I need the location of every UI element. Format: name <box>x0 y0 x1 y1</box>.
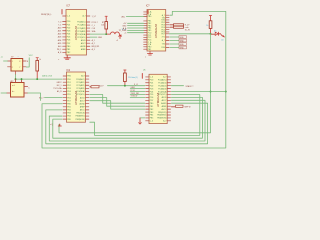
svg-text:AGND: AGND <box>79 102 85 105</box>
svg-text:PD2: PD2 <box>67 85 71 87</box>
IC3 left pin label MC_1 <box>57 85 62 87</box>
wire IC1 reset net <box>90 33 107 35</box>
svg-text:+5: +5 <box>116 40 118 42</box>
svg-text:+: + <box>18 56 19 58</box>
wire IC2 left AVC <box>126 16 143 18</box>
wire IC2 left +5V <box>128 22 144 24</box>
svg-text:v: v <box>58 59 59 61</box>
resistor R5 serial <box>90 86 99 88</box>
resistor R1 name <box>102 22 104 24</box>
svg-text:PD7: PD7 <box>67 43 71 45</box>
crystal Q2 square <box>7 79 28 97</box>
resistor R4 pullup <box>209 16 212 34</box>
wire flag TVKR_WR <box>130 94 145 96</box>
crystal Q1 square <box>8 59 27 75</box>
svg-text:GND: GND <box>98 37 103 39</box>
jumper JP1 arc <box>107 32 121 36</box>
svg-text:PB1: PB1 <box>67 49 70 51</box>
svg-text:BRQ2,R1: BRQ2,R1 <box>92 46 100 48</box>
resistor R4 value <box>206 25 208 27</box>
IC IC2 (ATMEGA8 right) <box>144 10 170 52</box>
svg-text:1N Gate(1): 1N Gate(1) <box>128 76 138 79</box>
wire staircase S1 <box>90 95 145 104</box>
svg-text:PB5(SCK): PB5(SCK) <box>76 113 85 115</box>
IC1 right pin label BRQ2,R1 <box>92 46 100 48</box>
svg-text:AL0: AL0 <box>58 45 61 48</box>
svg-text:PB0: PB0 <box>148 16 151 18</box>
svg-text:PC1(AD1): PC1(AD1) <box>158 81 167 84</box>
Q2 right label <box>28 87 30 89</box>
svg-text:A_7: A_7 <box>163 120 166 123</box>
svg-text:8: 8 <box>19 61 20 63</box>
svg-text:PB4(MISO): PB4(MISO) <box>157 115 167 117</box>
svg-text:PB3(MOSI): PB3(MOSI) <box>76 119 86 121</box>
wire Q2 right <box>28 93 41 101</box>
svg-text:PB2: PB2 <box>150 109 153 111</box>
svg-text:PB5: PB5 <box>67 119 70 121</box>
net label PC1O <box>131 90 136 92</box>
IC1 left pin label AD3 <box>58 36 62 39</box>
IC1 left pin label AD1 <box>58 30 62 33</box>
IC IC1 (ATMEGA8 top) <box>63 10 90 56</box>
resistor R3 serial <box>170 26 184 28</box>
svg-text:PB2: PB2 <box>67 110 70 112</box>
svg-text:DA CLOCK: DA CLOCK <box>42 75 53 78</box>
wire DA CLOCK <box>16 78 63 80</box>
wire RxD net to IC4 <box>108 85 145 87</box>
wire net V1 down and around bottom <box>59 34 211 133</box>
IC1 left pin label T_1 <box>58 24 61 26</box>
svg-text:1_5,7: 1_5,7 <box>92 16 97 18</box>
svg-text:PC5(SCL): PC5(SCL) <box>77 37 86 39</box>
svg-text:PC2(AD2): PC2(AD2) <box>77 27 86 30</box>
svg-text:PD4: PD4 <box>150 91 154 93</box>
IC4 designator <box>143 70 145 72</box>
svg-text:1k: 1k <box>39 59 41 61</box>
IC1 right pin label PC1/L7 <box>92 22 98 24</box>
svg-text:GML1: GML1 <box>131 87 136 89</box>
svg-text:STACK ?: STACK ? <box>186 85 194 88</box>
junction outer row92 <box>225 91 227 93</box>
svg-text:PB6: PB6 <box>67 76 70 78</box>
svg-text:PB5: PB5 <box>150 118 153 120</box>
resistor R8 value <box>39 59 41 61</box>
IC1 left pin label AD5 <box>58 42 62 45</box>
ground under IC3 <box>58 124 61 126</box>
svg-text:AGND: AGND <box>161 102 167 105</box>
svg-text:+5: +5 <box>1 57 3 59</box>
resistor R5 label RxD <box>99 86 104 88</box>
svg-text:ADC6: ADC6 <box>81 39 86 42</box>
svg-text:PD0: PD0 <box>67 79 71 81</box>
ground under IC2 <box>147 51 152 55</box>
svg-text:PB1: PB1 <box>150 106 153 108</box>
svg-text:AVCC: AVCC <box>162 108 168 111</box>
svg-text:ATMEGA8: ATMEGA8 <box>74 91 78 105</box>
LED D1 <box>211 32 225 37</box>
svg-text:PC2(AD2): PC2(AD2) <box>158 84 167 87</box>
svg-text:+5: +5 <box>124 33 126 35</box>
net label VCC <box>29 55 34 57</box>
label +5V <box>123 23 127 25</box>
svg-text:PB2: PB2 <box>67 52 70 54</box>
svg-text:A_3: A_3 <box>92 48 95 51</box>
supply +5 text <box>116 40 118 42</box>
svg-text:ADC6: ADC6 <box>80 96 85 99</box>
svg-text:PC3(AD3): PC3(AD3) <box>76 87 85 90</box>
junction node R4 <box>210 33 212 35</box>
svg-text:PB4: PB4 <box>67 116 70 118</box>
net label TVKR_WR <box>131 93 140 95</box>
svg-text:PD4: PD4 <box>67 34 71 36</box>
Q1 designator <box>18 56 19 58</box>
IC1 right pin label SDA <box>92 30 96 33</box>
IC1 right pin label A_1 <box>92 39 95 42</box>
net label DA CLOCK <box>42 75 53 78</box>
label A_A <box>123 27 127 30</box>
svg-text:G?: G? <box>11 56 13 58</box>
svg-text:B: B <box>27 61 28 63</box>
supply symbol under IC4 <box>139 118 142 124</box>
IC IC3 (ATMEGA8 bottom) <box>63 72 89 122</box>
resistor R7 label NRF <box>185 107 191 109</box>
svg-text:T_1: T_1 <box>58 24 61 26</box>
svg-text:PB3(MOSI): PB3(MOSI) <box>157 118 167 120</box>
svg-text:PC4(SDA): PC4(SDA) <box>77 33 86 36</box>
wire staircase S3 <box>90 101 145 109</box>
svg-text:10k: 10k <box>101 25 104 27</box>
svg-text:PC1(AD1): PC1(AD1) <box>76 81 85 84</box>
label +5 <box>124 33 126 35</box>
svg-text:PD0: PD0 <box>150 80 154 82</box>
LED D1 name <box>221 40 224 42</box>
svg-text:ATMEGA8: ATMEGA8 <box>74 26 78 40</box>
wire IC2 right flag 40.5 <box>170 40 179 42</box>
resistor R3 label cash <box>185 27 189 29</box>
wire IC2 left +5 <box>128 32 144 34</box>
svg-text:PD2: PD2 <box>150 85 154 87</box>
svg-text:PD6: PD6 <box>150 97 154 99</box>
svg-text:PD3: PD3 <box>150 88 154 90</box>
IC3 left pin label GND? <box>57 82 62 84</box>
wire STACK <box>171 85 183 87</box>
wire IC2 right flag 37.0 <box>170 36 179 38</box>
net label +5 <box>1 57 3 59</box>
svg-text:C_6: C_6 <box>150 121 153 123</box>
net flag GND 47.5 <box>179 46 186 49</box>
R6 value IN Gate <box>128 76 138 79</box>
IC1 left pin label PB_1 <box>57 49 61 51</box>
svg-text:NRF W: NRF W <box>185 107 191 109</box>
svg-text:TX0: TX0 <box>162 44 165 46</box>
svg-text:PB0: PB0 <box>150 103 153 105</box>
svg-text:PB1: PB1 <box>148 49 151 51</box>
svg-text:AGND: AGND <box>80 45 86 48</box>
svg-text:PC3(AD3): PC3(AD3) <box>158 87 167 90</box>
svg-text:A_7: A_7 <box>82 15 85 18</box>
svg-text:TVKR_WR: TVKR_WR <box>131 93 140 95</box>
net label S_L1 <box>134 84 138 86</box>
svg-text:PB5(SCK): PB5(SCK) <box>158 112 167 114</box>
svg-text:AD1: AD1 <box>58 30 62 33</box>
svg-text:VCC: VCC <box>29 55 34 57</box>
svg-text:PD1: PD1 <box>67 24 71 26</box>
svg-text:C_L: C_L <box>92 25 95 27</box>
IC3 left pin label TVCO-DA <box>53 87 62 90</box>
wire IC2 left GND <box>128 25 144 27</box>
junction Q2 top <box>21 78 23 80</box>
svg-text:PB_1: PB_1 <box>57 49 61 51</box>
Q1 pin 1 <box>12 61 13 63</box>
wire ring A left <box>90 95 200 136</box>
Q1 pin 8 <box>19 61 20 63</box>
IC3 bottom label <box>50 124 53 126</box>
jumper JP1 value <box>122 28 127 31</box>
svg-text:PC0(ADC): PC0(ADC) <box>77 21 86 24</box>
svg-text:PD6: PD6 <box>67 97 71 99</box>
wire net VCC loop top/right/bottom <box>42 11 226 148</box>
wire IC2 right flag 44.0 <box>170 43 179 45</box>
wire Q2 left <box>1 92 7 94</box>
svg-text:ADC7: ADC7 <box>80 99 85 102</box>
svg-text:C_6: C_6 <box>150 77 153 79</box>
svg-text:PB1: PB1 <box>67 107 70 109</box>
svg-text:RX0: RX0 <box>161 47 165 49</box>
junction R6 node <box>124 85 126 87</box>
svg-text:MC_1: MC_1 <box>57 85 62 87</box>
svg-text:PD1: PD1 <box>67 82 71 84</box>
svg-text:GND?: GND? <box>57 82 62 84</box>
IC3 left pin label A5_R <box>57 90 62 93</box>
svg-text:AVCC: AVCC <box>80 109 86 112</box>
ground label <box>58 59 59 61</box>
label GND IC1 <box>98 37 103 39</box>
svg-text:2: 2 <box>12 67 13 69</box>
supply +5V symbol <box>119 35 122 39</box>
junction node RESET <box>105 33 107 35</box>
svg-text:ADC7: ADC7 <box>81 42 86 45</box>
net flag GND 44.0 <box>179 43 186 46</box>
Q2 pin mark b <box>12 91 14 93</box>
ground under IC1 <box>64 55 70 59</box>
svg-text:PD0: PD0 <box>67 21 71 23</box>
Q1 right pin label <box>27 61 28 63</box>
svg-text:PD7: PD7 <box>150 100 154 102</box>
wire IC2 to R4 junction <box>169 33 210 35</box>
svg-text:PB3: PB3 <box>67 113 70 115</box>
svg-text:RUN(?)B_L: RUN(?)B_L <box>41 14 53 16</box>
IC IC4 (ATMEGA8 bottom right) <box>146 74 171 123</box>
svg-text:RxD?: RxD? <box>99 86 104 88</box>
IC1 left pin label A_B <box>58 51 62 54</box>
net label GML1 <box>131 87 136 89</box>
IC1 left pin label T_0 <box>58 21 61 23</box>
svg-text:dis: dis <box>214 30 216 32</box>
wire ring D left <box>46 103 208 144</box>
junction Q1 bottom <box>15 78 17 80</box>
wire Q1 bottom <box>15 75 17 80</box>
svg-text:SL_W: SL_W <box>185 29 190 31</box>
svg-text:A_7: A_7 <box>163 76 166 79</box>
svg-text:TVCO-DA: TVCO-DA <box>53 87 62 90</box>
svg-text:A5_R: A5_R <box>57 90 62 93</box>
IC1 left pin label AD0 <box>58 26 62 29</box>
svg-text:PB0: PB0 <box>67 103 70 105</box>
resistor R1 value <box>101 25 104 27</box>
IC2 pin 1 mark <box>147 10 149 14</box>
junction V1 row92 <box>210 91 212 93</box>
junction R8 bottom <box>36 78 38 80</box>
svg-text:ATMEGA8: ATMEGA8 <box>154 24 158 38</box>
svg-text:XT1: XT1 <box>162 37 165 39</box>
IC1 left pin label AD4 <box>58 39 62 42</box>
resistor R6 vertical <box>124 70 127 86</box>
svg-text:PD5: PD5 <box>67 37 71 39</box>
IC1 right pin label CLK <box>92 28 96 30</box>
svg-text:PC1(AD1): PC1(AD1) <box>77 24 86 27</box>
resistor R2 label R_D? <box>185 24 190 26</box>
wire IC2 right flag 47.5 <box>170 47 179 49</box>
wire Q1 to VCC <box>26 58 29 67</box>
wire IC1 pin GND <box>90 36 97 38</box>
svg-text:b c: b c <box>12 91 14 93</box>
svg-text:AD5: AD5 <box>58 42 62 45</box>
IC1 left pin label AD2 <box>58 33 62 36</box>
IC IC3 (ATMEGA8 bottom) designator <box>67 70 71 72</box>
svg-text:U5: U5 <box>143 70 145 72</box>
wire ring C left <box>49 100 205 141</box>
svg-text:AD2: AD2 <box>58 33 62 36</box>
svg-text:PD7: PD7 <box>67 100 71 102</box>
net label KN <box>39 97 44 99</box>
wire staircase S2 <box>90 98 145 107</box>
svg-text:A_1: A_1 <box>92 39 95 42</box>
IC1 right pin label A_2 <box>92 42 95 45</box>
IC1 left pin label AL0 <box>58 45 61 48</box>
wire IC4 row92 to loop <box>171 91 225 93</box>
IC1 right pin label A_3 <box>92 48 95 51</box>
svg-text:PB4(MISO): PB4(MISO) <box>76 116 86 118</box>
label AVC <box>122 15 126 18</box>
IC1 label RUN <box>41 14 53 16</box>
label GND <box>122 25 127 27</box>
svg-text:KN_?: KN_? <box>39 97 44 99</box>
resistor R1 <box>105 16 108 34</box>
svg-text:AD4: AD4 <box>58 39 62 42</box>
svg-text:ATMEGA8: ATMEGA8 <box>156 92 160 106</box>
svg-text:PC2(AD2): PC2(AD2) <box>76 84 85 87</box>
svg-text:A_7: A_7 <box>162 39 165 42</box>
wire +5 to Q1 <box>4 60 8 62</box>
wire ring B left <box>53 97 203 138</box>
svg-text:PD3: PD3 <box>67 88 71 90</box>
label TP_PWM <box>119 30 127 32</box>
resistor R8 <box>36 58 39 79</box>
IC IC2 (ATMEGA8 right) designator <box>146 5 150 7</box>
ground label IC2 <box>145 57 146 59</box>
svg-text:PD5: PD5 <box>150 94 154 96</box>
wire IC4 supply <box>140 117 145 119</box>
svg-text:AD3: AD3 <box>58 36 62 39</box>
Q1 pin 2 <box>12 67 13 69</box>
wire IC2 left TP_PWM <box>128 29 144 31</box>
svg-text:1: 1 <box>12 61 13 63</box>
Q2 pin mark a <box>12 85 15 87</box>
IC1 pin 1 mark <box>61 10 63 15</box>
svg-text:PD3: PD3 <box>67 30 71 32</box>
IC IC1 (ATMEGA8 top) designator <box>67 6 71 8</box>
svg-text:7: 7 <box>19 67 20 69</box>
wire flag T1VB_W <box>130 96 145 98</box>
svg-text:PC1/L7: PC1/L7 <box>92 22 98 24</box>
net flag GND 40.5 <box>179 39 186 42</box>
Q1 name <box>11 56 13 58</box>
svg-text:AC7: AC7 <box>81 75 85 78</box>
svg-text:PC0(ADC): PC0(ADC) <box>76 78 85 81</box>
svg-text:PD2: PD2 <box>67 27 71 29</box>
label SL_W <box>185 29 190 31</box>
svg-text:ADC7: ADC7 <box>162 99 167 102</box>
svg-text:T1VB_W: T1VB_W <box>131 96 138 98</box>
svg-text:C_6: C_6 <box>67 16 70 18</box>
LED D1 value <box>214 30 216 32</box>
net label STACK <box>186 85 194 88</box>
svg-text:PB0: PB0 <box>67 46 70 48</box>
svg-text:T_0: T_0 <box>58 21 61 23</box>
resistor R7 serial <box>171 105 183 107</box>
svg-text:ADC6: ADC6 <box>162 96 167 99</box>
net flag GND 37.0 <box>179 36 186 39</box>
resistor R2 serial <box>170 24 184 26</box>
svg-text:PD6: PD6 <box>67 40 71 42</box>
svg-text:a d: a d <box>12 85 15 87</box>
svg-text:U$?: U$? <box>10 81 13 83</box>
svg-text:A_2: A_2 <box>92 42 95 45</box>
IC4 pin 1 mark <box>141 74 143 79</box>
wire flag PC1O <box>130 91 145 93</box>
svg-text:PC1O: PC1O <box>131 90 136 92</box>
wire KN net <box>45 97 63 99</box>
svg-text:PC3(AD3): PC3(AD3) <box>77 30 86 33</box>
svg-text:AD0: AD0 <box>58 26 62 29</box>
svg-text:PC0(ADC): PC0(ADC) <box>158 79 167 82</box>
IC1 right pin label 1_5,7 <box>92 16 97 18</box>
IC1 right pin label C_L <box>92 25 95 27</box>
wire flag GML1 <box>130 88 145 90</box>
svg-text:PB4: PB4 <box>150 115 153 117</box>
wire IC2 left A_A <box>128 27 144 29</box>
Q1 pin 7 <box>19 67 20 69</box>
svg-text:PB3: PB3 <box>150 112 153 114</box>
Q2 designator <box>10 81 13 83</box>
svg-text:PD7: PD7 <box>161 34 165 36</box>
svg-text:1k: 1k <box>206 25 208 27</box>
svg-text:PD1: PD1 <box>150 82 154 84</box>
svg-text:PD5: PD5 <box>67 94 71 96</box>
svg-text:S_L1: S_L1 <box>134 84 138 86</box>
svg-text:PD4: PD4 <box>67 91 71 93</box>
net label T1VB_W <box>131 96 138 98</box>
